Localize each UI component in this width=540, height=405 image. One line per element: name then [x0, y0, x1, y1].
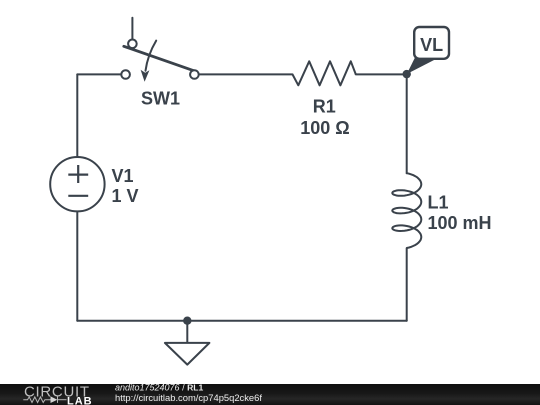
svg-text:100 Ω: 100 Ω — [300, 118, 349, 138]
svg-text:L1: L1 — [428, 193, 449, 213]
wire top-left horizontal — [77, 73, 120, 75]
svg-text:LAB: LAB — [67, 395, 93, 405]
wire switch to resistor — [200, 73, 293, 75]
switch blade — [124, 46, 196, 71]
plus sign — [68, 174, 88, 176]
svg-text:1 V: 1 V — [112, 186, 139, 206]
switch actuation arrow — [146, 41, 157, 71]
source circle — [50, 157, 104, 211]
minus sign — [68, 195, 88, 197]
inductor coil — [392, 173, 421, 248]
svg-text:http://circuitlab.com/cp74p5q2: http://circuitlab.com/cp74p5q2cke6f — [115, 392, 262, 403]
svg-text:100 mH: 100 mH — [428, 213, 492, 233]
switch SW1 — [121, 18, 198, 109]
svg-text:SW1: SW1 — [141, 89, 180, 109]
CircuitLab logo diode triangle — [51, 396, 58, 403]
ground junction dot — [183, 317, 191, 325]
resistor zigzag — [293, 61, 356, 85]
wire bottom horizontal — [77, 320, 406, 322]
switch terminal circle top — [128, 40, 137, 49]
wire left vertical upper — [76, 74, 78, 157]
svg-text:R1: R1 — [313, 96, 336, 116]
VL callout box — [414, 27, 449, 59]
VL callout pointer — [407, 58, 436, 75]
wire resistor to node VL — [356, 73, 407, 75]
ground triangle — [165, 343, 210, 365]
switch top throw lead — [131, 18, 133, 40]
switch terminal circle right — [190, 70, 199, 79]
ground stub wire — [186, 321, 188, 343]
resistor R1 — [293, 61, 356, 138]
wire left vertical lower — [76, 211, 78, 320]
svg-text:VL: VL — [420, 35, 443, 55]
CircuitLab logo schematic squiggle — [23, 397, 66, 403]
switch terminal circle left — [121, 70, 130, 79]
svg-text:V1: V1 — [112, 166, 134, 186]
wire right vertical upper — [406, 74, 408, 173]
inductor L1 — [392, 173, 491, 248]
switch arrowhead — [141, 70, 150, 82]
wire right vertical lower — [406, 249, 408, 321]
ground — [165, 317, 210, 365]
footer bar — [0, 383, 540, 405]
voltage source V1 — [50, 157, 138, 211]
node VL junction dot — [403, 70, 411, 78]
node VL callout — [403, 27, 450, 78]
